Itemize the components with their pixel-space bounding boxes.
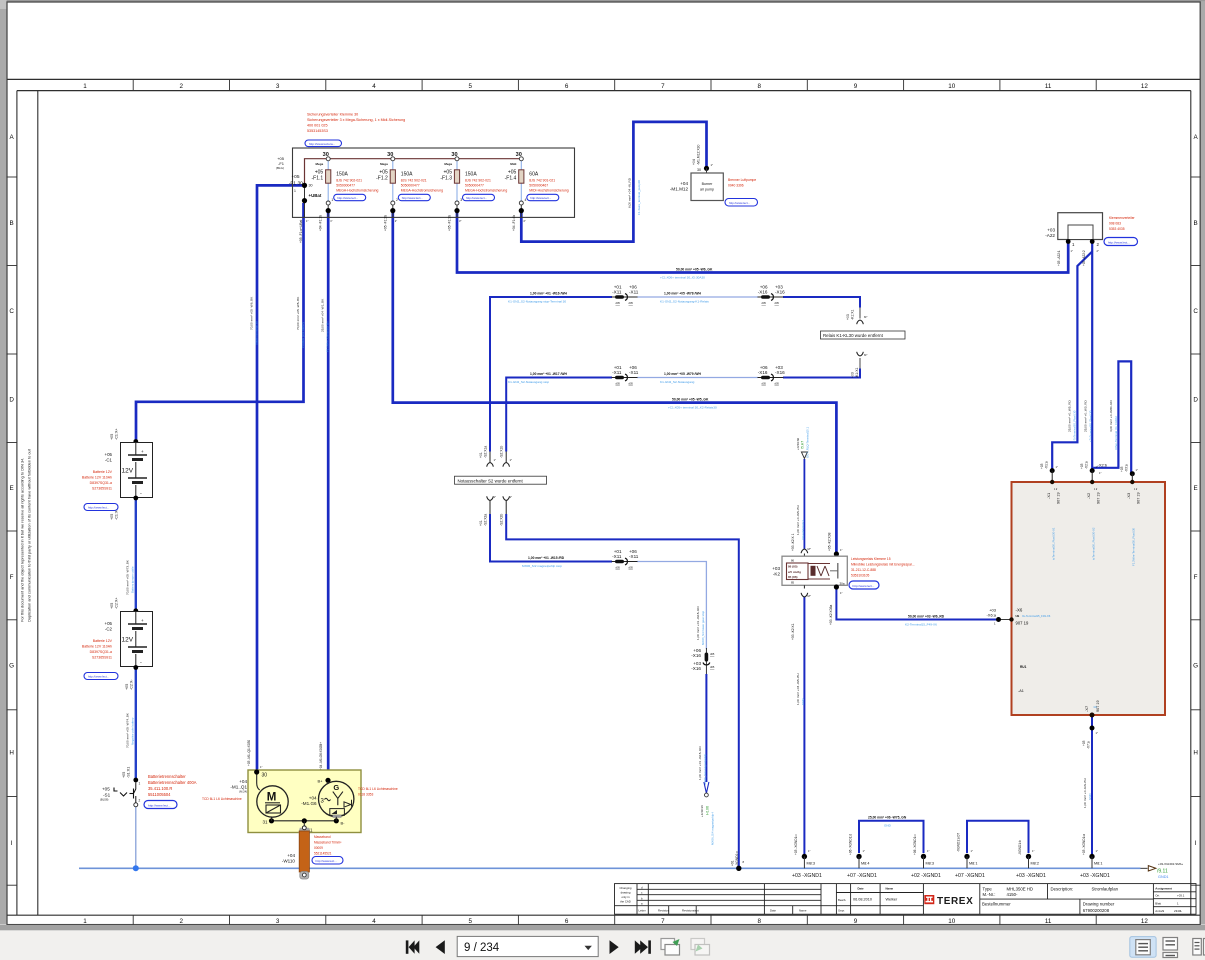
svg-text:8: 8: [757, 83, 761, 90]
svg-text:the CAD: the CAD: [620, 900, 631, 904]
svg-text:1,00 mm² +01 -W15..RD: 1,00 mm² +01 -W15..RD: [698, 746, 702, 780]
A22 pin 1: [1066, 239, 1075, 247]
toolbar next-page button: [610, 940, 619, 954]
connector pair X16 on row1: [758, 284, 786, 305]
battery disconnect switch S1: [100, 778, 141, 807]
svg-text:-K1:X1: -K1:X1: [851, 310, 855, 320]
contact fork at K2 coil bottom: [801, 585, 808, 597]
svg-text:-C1:X+: -C1:X+: [115, 428, 119, 440]
svg-text:http://www.lectura...: http://www.lectura...: [309, 142, 335, 146]
svg-text:H: H: [9, 750, 14, 757]
svg-text:d05: d05: [762, 382, 767, 386]
svg-text:1″: 1″: [494, 458, 497, 462]
hyperlink oval relay K2: [849, 581, 879, 589]
node +05 -C1:X+ label: [110, 428, 141, 445]
svg-text:-A1: -A1: [1018, 689, 1024, 693]
svg-text:907 19: 907 19: [1096, 700, 1100, 712]
battery C2 12V: [105, 612, 153, 667]
svg-text:+07 -XGND1: +07 -XGND1: [955, 873, 985, 879]
wire: fuse F1.1 output down to generator B+: [327, 212, 330, 780]
sheet reference arrow feeding relay K2 coil: [796, 426, 810, 458]
contact S2:X1b: [500, 446, 513, 467]
svg-text:-X6: -X6: [1016, 608, 1023, 613]
svg-text:http://www.lect...: http://www.lect...: [402, 196, 423, 200]
svg-text:-C1:X-: -C1:X-: [115, 509, 119, 520]
svg-text:G: G: [9, 663, 14, 670]
svg-text:F1.4wire_terminal_pump30: F1.4wire_terminal_pump30: [637, 180, 641, 215]
svg-text:+03.1: +03.1: [1177, 894, 1185, 898]
svg-text:D8397SQ31-a: D8397SQ31-a: [90, 650, 112, 654]
svg-text:+1/49:36: +1/49:36: [700, 805, 704, 817]
svg-text:+03 -XGND1: +03 -XGND1: [792, 873, 822, 879]
fuse box internal 30 rail: [305, 159, 522, 186]
svg-text:50,00 mm² +05 -W5..GK: 50,00 mm² +05 -W5..GK: [672, 397, 709, 401]
svg-text:+03 -XGND1: +03 -XGND1: [1016, 873, 1046, 879]
contact K1:X1 lower: [851, 352, 868, 378]
svg-text:2: 2: [180, 83, 184, 90]
svg-text:d05: d05: [629, 301, 634, 305]
svg-text:85: 85: [791, 581, 795, 585]
svg-text:toTerminal30_PlusU30-X2: toTerminal30_PlusU30-X2: [1092, 527, 1096, 560]
svg-text:25,00 mm² +0..W3..RD: 25,00 mm² +0..W3..RD: [1084, 400, 1088, 432]
svg-text:Description:: Description:: [1051, 886, 1074, 891]
svg-text:-C2:X+: -C2:X+: [115, 597, 119, 609]
hyperlink oval A22: [1104, 238, 1138, 246]
relay K2 box: [782, 556, 847, 585]
svg-text:-S1:X1: -S1:X1: [127, 767, 131, 778]
wire: A22 pin 2 branch with diagonal jog down to connector X1:a: [1052, 252, 1092, 470]
label +04 -M1..Q1: [230, 779, 247, 794]
svg-text:M″: M″: [808, 594, 811, 598]
svg-text:Blatt: Blatt: [1155, 902, 1161, 906]
svg-text:2″: 2″: [395, 219, 397, 223]
svg-text:3: 3: [460, 198, 462, 202]
svg-text:+04 -F1:4b: +04 -F1:4b: [512, 215, 516, 231]
svg-text:+03 -XGND1:c: +03 -XGND1:c: [794, 834, 798, 855]
column number ticks top: [133, 79, 1096, 90]
viewer right gray strip: [1201, 2, 1205, 925]
svg-text:+04: +04: [287, 853, 295, 858]
svg-text:5: 5: [469, 918, 473, 925]
rotated wire label on X7 ground wire: [1083, 778, 1092, 808]
wire: sheet-reference arrow down to relay K2 coil pin X1 (top): [803, 459, 805, 549]
svg-text:3″: 3″: [459, 219, 461, 223]
svg-text:-F1: -F1: [289, 180, 297, 186]
red part label W110: [314, 835, 341, 856]
svg-text:Positive pole battery: Positive pole battery: [301, 321, 305, 348]
toolbar last-page button: [635, 940, 651, 953]
svg-text:5: 5: [469, 83, 473, 90]
svg-text:5353103105: 5353103105: [851, 574, 870, 578]
svg-text:-M1..Q1: -M1..Q1: [230, 785, 247, 790]
viewer window chrome: top border line: [0, 0, 1205, 2]
svg-text:B: B: [1193, 220, 1197, 227]
svg-text:+05 -M1..Q1:X030: +05 -M1..Q1:X030: [247, 740, 251, 766]
svg-text:-X16: -X16: [758, 370, 768, 375]
svg-text:E: E: [9, 485, 13, 492]
wire: S2:X2b down, right along y539.4, down at x738 to ground bus XGND1:c: [506, 514, 739, 868]
svg-text:Batterie 12V: Batterie 12V: [93, 470, 113, 474]
svg-text:+ToTerminal30_PlusU30: +ToTerminal30_PlusU30: [1073, 410, 1077, 442]
rotated node label +03 -K2:X08a: [829, 591, 843, 625]
svg-text:IG-Terminal15_F49-X6: IG-Terminal15_F49-X6: [1022, 614, 1051, 618]
svg-text:25,00 mm² +0..W5..RD: 25,00 mm² +0..W5..RD: [1068, 400, 1072, 432]
svg-text:1″: 1″: [711, 163, 714, 167]
svg-text:C: C: [1193, 308, 1198, 315]
svg-text:S27365S911: S27365S911: [92, 656, 112, 660]
A22 pin 2: [1090, 239, 1100, 247]
svg-text:d05: d05: [775, 301, 780, 305]
svg-text:1″: 1″: [306, 219, 308, 223]
row letters right: [1193, 134, 1198, 847]
svg-text:Ort: Ort: [1155, 894, 1159, 898]
svg-text:1″: 1″: [510, 458, 513, 462]
svg-text:8JS 742 902-021: 8JS 742 902-021: [401, 179, 427, 183]
connector pair X11 on row1: [612, 284, 639, 305]
svg-text:C: C: [9, 308, 14, 315]
svg-text:(BLS8): (BLS8): [100, 798, 108, 802]
svg-text:+: +: [141, 618, 144, 623]
wire label row1 right: [660, 292, 709, 304]
toolbar snapshot-to-clipboard icon: [661, 939, 680, 956]
svg-text:M8:4: M8:4: [861, 862, 869, 866]
svg-text:F: F: [10, 574, 14, 581]
svg-text:Name: Name: [886, 887, 894, 891]
svg-text:-X11: -X11: [629, 370, 639, 375]
svg-text:-C1: -C1: [105, 458, 113, 463]
fuse box internal +UBat branch line and junctions: [302, 183, 322, 218]
svg-text:+05: +05: [110, 603, 114, 609]
red part label battery C1: [82, 470, 113, 491]
svg-text:1″: 1″: [260, 765, 262, 769]
column band bottom line (inner frame top): [17, 90, 1191, 92]
wire: relay K2 contact X08a down and right to control unit pin X6:a: [836, 587, 1011, 620]
svg-text:86: 86: [791, 559, 795, 563]
svg-text:-X16: -X16: [775, 370, 785, 375]
view mode: continuous: [1163, 938, 1178, 958]
svg-text:5511005504: 5511005504: [148, 792, 171, 797]
svg-text:Gepr.: Gepr.: [838, 909, 845, 913]
toolbar previous-page button: [436, 940, 445, 954]
rotated wire label on K2 coil feed: [796, 505, 805, 540]
contact S2:X1a (wire end fork): [479, 446, 496, 467]
svg-text:D8397SQ31-a: D8397SQ31-a: [90, 481, 112, 485]
ground stud M8:1 (+03 -XGND1): [1080, 834, 1110, 879]
A1 pin X2:a: [1080, 461, 1101, 560]
svg-text:+03: +03: [1047, 228, 1055, 233]
svg-text:+05: +05: [105, 621, 113, 626]
svg-text:d05: d05: [629, 566, 634, 570]
letters band vertical line left: [16, 91, 18, 916]
svg-text:MEGA-Hochstromsicherung: MEGA-Hochstromsicherung: [401, 189, 443, 193]
column number ticks bottom: [133, 915, 1096, 924]
svg-text:+04: +04: [239, 779, 247, 784]
svg-text:http://www.lect...: http://www.lect...: [466, 196, 487, 200]
svg-text:-X7:a: -X7:a: [1087, 741, 1091, 749]
svg-text:-X11: -X11: [629, 289, 639, 294]
svg-text:http://www.lect...: http://www.lect...: [1108, 240, 1130, 244]
svg-text:2: 2: [180, 918, 184, 925]
svg-text:Relais K1-KL30 wurde entfernt: Relais K1-KL30 wurde entfernt: [823, 333, 884, 338]
svg-text:1: 1: [83, 918, 87, 925]
svg-text:-X7: -X7: [1084, 705, 1089, 712]
label +04 -M1.G6: [301, 796, 317, 807]
svg-text:Mega: Mega: [380, 162, 388, 166]
pin B+ of generator M1.G6: [318, 778, 331, 784]
svg-text:907 19: 907 19: [1016, 621, 1029, 626]
svg-text:50,00 mm² +05 -W6..GK: 50,00 mm² +05 -W6..GK: [676, 268, 713, 272]
svg-text:M8:3: M8:3: [807, 862, 815, 866]
svg-text:M.-Nr.:: M.-Nr.:: [983, 892, 996, 897]
svg-text:GND1: GND1: [1158, 875, 1169, 879]
svg-text:1″: 1″: [840, 548, 843, 552]
svg-text:Brenner Luftpumpe: Brenner Luftpumpe: [728, 178, 756, 182]
svg-text:+04 -M1.G6:X0GB+: +04 -M1.G6:X0GB+: [319, 742, 323, 770]
svg-text:1▼: 1▼: [1134, 488, 1138, 491]
ground junction +01 -XGND1:c (dot on bus): [731, 851, 745, 871]
title block assignment mini-table: [1155, 887, 1184, 913]
svg-text:Anzahl: Anzahl: [1155, 909, 1164, 913]
plug arrow H106 (sheet reference going down): [700, 782, 715, 845]
svg-text:85 (86): 85 (86): [788, 575, 798, 579]
inner drawing frame left: [37, 91, 39, 916]
A1 pin X3:a: [1120, 464, 1141, 566]
wire: battery starter feed +Ubat from fuse box left down to motor M pin 30: [257, 185, 305, 771]
svg-text:8: 8: [757, 918, 761, 925]
svg-text:+05: +05: [125, 684, 129, 690]
svg-text:+05: +05: [110, 514, 114, 520]
bottom band top line (inner frame bottom): [7, 914, 1200, 916]
red part label A22: [1109, 216, 1136, 231]
rotated node label +04 -M1.G6:X0GB+: [319, 742, 333, 773]
svg-text:For this document and the obje: For this document and the object represe…: [20, 458, 25, 622]
wire: battery C1 minus to battery C2 plus: [135, 498, 137, 611]
svg-text:1″: 1″: [1071, 249, 1073, 253]
svg-text:Mega: Mega: [444, 162, 452, 166]
svg-text:Masseband: Masseband: [314, 835, 331, 839]
svg-text:G: G: [333, 783, 339, 792]
wire label X2a row: [522, 556, 565, 568]
red label TCD Lichtmaschine left: [202, 797, 242, 801]
svg-text:12: 12: [1141, 83, 1149, 90]
svg-text:3: 3: [276, 83, 280, 90]
svg-text:Mikrobike Leistungsrelais mit: Mikrobike Leistungsrelais mit Energiespa…: [851, 563, 915, 567]
fuse F1.2 150A: [376, 152, 443, 231]
svg-text:-X3: -X3: [1126, 492, 1131, 499]
svg-text:K1-GN2_S2-Notausgang stop-Term: K1-GN2_S2-Notausgang stop-Terminal 30: [508, 300, 566, 304]
svg-text:+03 -K2:X08a: +03 -K2:X08a: [829, 605, 833, 625]
svg-text:E: E: [1193, 485, 1197, 492]
svg-text:4″: 4″: [523, 219, 525, 223]
svg-text:4: 4: [372, 918, 376, 925]
red part label burner pump: [728, 178, 756, 188]
svg-text:MEGA-Hochstromsicherung: MEGA-Hochstromsicherung: [336, 189, 378, 193]
svg-text:http://www.lect...: http://www.lect...: [337, 196, 358, 200]
svg-text:70,00 mm² +05 -W74..BK: 70,00 mm² +05 -W74..BK: [126, 712, 130, 748]
wire: fuse F1.3 output down, right along y272.5 to terminal block A22 pin 1: [457, 212, 1068, 273]
svg-text:4,00 mm² +0..W80..RD: 4,00 mm² +0..W80..RD: [1109, 400, 1113, 432]
svg-text:+ToTerminal30_PlusU30: +ToTerminal30_PlusU30: [1089, 410, 1093, 442]
rotated node label +03 -K2:X1 (bottom): [791, 594, 811, 640]
view mode: two pages: [1193, 939, 1205, 956]
svg-text:11: 11: [1045, 83, 1052, 90]
contact K1:X1 upper: [846, 310, 867, 325]
node +05 -C1:X- label: [110, 496, 138, 520]
svg-text:MX06_S/2 magnetpohlp: MX06_S/2 magnetpohlp: [703, 754, 707, 785]
svg-text:-X16: -X16: [691, 666, 701, 671]
svg-text:M: M: [267, 792, 277, 804]
svg-text:907 19: 907 19: [1057, 492, 1061, 504]
svg-text:+: +: [141, 449, 144, 454]
svg-text:M8:1: M8:1: [969, 862, 977, 866]
svg-text:B+: B+: [318, 778, 324, 783]
svg-text:/5.H7: /5.H7: [801, 441, 805, 449]
svg-text:1,00 mm² +03 -W5..BU: 1,00 mm² +03 -W5..BU: [796, 673, 800, 705]
svg-text:Batterie 12V 110Ah: Batterie 12V 110Ah: [82, 476, 112, 480]
svg-text:-C2:X-: -C2:X-: [130, 679, 134, 690]
svg-text:1″: 1″: [510, 495, 513, 499]
svg-text:+05 -K2:X08: +05 -K2:X08: [828, 532, 832, 551]
svg-text:MX06_S/3 lower gear stop: MX06_S/3 lower gear stop: [701, 611, 705, 645]
svg-text:1,00 mm² +0..W5..BU: 1,00 mm² +0..W5..BU: [796, 505, 800, 535]
rotated label battery to switch cable: [126, 712, 135, 748]
label +03 -A22: [1045, 228, 1055, 239]
node label -X2:b on bracket wire: [1098, 463, 1108, 476]
svg-text:31: 31: [263, 820, 269, 825]
svg-text:907 19: 907 19: [1137, 492, 1141, 504]
svg-text:2″: 2″: [1097, 249, 1099, 253]
svg-text:5050000477: 5050000477: [336, 183, 355, 187]
svg-text:-F1.3: -F1.3: [440, 176, 452, 182]
svg-text:d05: d05: [710, 652, 715, 656]
svg-text:3: 3: [276, 918, 280, 925]
svg-text:-X1:a: -X1:a: [1045, 461, 1049, 469]
svg-text:Negative pole battery: Negative pole battery: [131, 717, 135, 745]
svg-text:06.08.2010: 06.08.2010: [853, 898, 872, 902]
svg-text:K2-Terminal15_F49-X6: K2-Terminal15_F49-X6: [905, 623, 937, 627]
svg-text:86 (85): 86 (85): [788, 565, 798, 569]
svg-text:+05: +05: [105, 452, 113, 457]
svg-text:d05: d05: [616, 566, 621, 570]
svg-text:Batterie 12V: Batterie 12V: [93, 639, 113, 643]
rotated node label +04 -M1.M12:X30: [692, 145, 701, 165]
svg-text:Name: Name: [799, 909, 807, 913]
svg-text:-M1.M12:X30: -M1.M12:X30: [697, 145, 701, 165]
svg-text:8JS 742 902-021: 8JS 742 902-021: [465, 179, 491, 183]
svg-text:1,00 mm² +05 -W79 /WH: 1,00 mm² +05 -W79 /WH: [664, 372, 702, 376]
svg-text:TCD 6L1 L6 Lichtmaschine: TCD 6L1 L6 Lichtmaschine: [202, 797, 242, 801]
svg-text:+03: +03: [1040, 463, 1044, 469]
svg-text:-X16: -X16: [691, 653, 701, 658]
svg-text:Klemmenverteiler: Klemmenverteiler: [1109, 216, 1136, 220]
svg-text:8JS 742 902-021: 8JS 742 902-021: [336, 179, 362, 183]
svg-text:Batterietrennschalter: Batterietrennschalter: [148, 774, 186, 779]
svg-text:+04 -F1:1b: +04 -F1:1b: [319, 215, 323, 231]
fuse box left terminal labels +05 -F1 30: [276, 156, 303, 193]
rotated wire label 25mm generator cable on x328 wire: [321, 298, 330, 352]
svg-text:30: 30: [309, 184, 313, 188]
svg-text:+01: +01: [479, 452, 483, 458]
svg-text:Drawing number: Drawing number: [1083, 902, 1115, 907]
svg-text:-S1: -S1: [103, 793, 111, 798]
svg-text:-X2: -X2: [1086, 492, 1091, 499]
svg-text:GND: GND: [801, 699, 805, 705]
svg-text:d05: d05: [775, 382, 780, 386]
svg-text:-: -: [140, 491, 142, 497]
svg-text:-S2:X2a: -S2:X2a: [484, 514, 488, 526]
svg-text:6: 6: [565, 83, 569, 90]
svg-text:M8:2: M8:2: [1031, 862, 1039, 866]
A1 internal labels: [1018, 665, 1027, 693]
rotated wire label on x706 wire lower: [698, 746, 707, 785]
fuse F1.4 60A: [505, 152, 569, 231]
svg-text:d05: d05: [762, 301, 767, 305]
svg-text:1: 1: [139, 782, 141, 786]
toolbar page number combobox 9 / 234: [457, 936, 598, 956]
svg-text:908 083: 908 083: [1109, 222, 1121, 226]
svg-text:-XGND1:c: -XGND1:c: [735, 851, 739, 866]
svg-text:Welker: Welker: [886, 898, 898, 902]
internal ground link 31 / B-: [263, 817, 346, 833]
svg-text:00009: 00009: [314, 846, 323, 850]
svg-text:12V: 12V: [122, 468, 134, 475]
wire: ground bracket M8:1(+07) to M8:2: [967, 821, 1029, 853]
svg-text:-S2:X1b: -S2:X1b: [500, 446, 504, 458]
svg-text:-M1.M12: -M1.M12: [670, 187, 689, 192]
svg-text:1″: 1″: [971, 849, 973, 853]
svg-text:1▼: 1▼: [1054, 488, 1058, 491]
svg-text:+03 -K2:X1: +03 -K2:X1: [791, 623, 795, 640]
svg-text:M″: M″: [864, 315, 867, 319]
svg-text:60A: 60A: [529, 172, 539, 178]
svg-text:+05: +05: [291, 174, 299, 180]
svg-text:1: 1: [294, 189, 296, 193]
svg-text:Date: Date: [858, 887, 865, 891]
svg-text:Bearb.: Bearb.: [838, 898, 846, 902]
title block type/description: [982, 886, 1119, 913]
svg-text:5050000477: 5050000477: [401, 183, 420, 187]
svg-text:M″: M″: [864, 353, 867, 357]
svg-text:10: 10: [948, 83, 956, 90]
svg-text:1▼: 1▼: [1094, 488, 1098, 491]
svg-text:+05: +05: [122, 772, 126, 778]
svg-text:RU1: RU1: [1020, 665, 1027, 669]
wire row2: S2:X1b up to y377.5 and right to removed relay K1:X1 (lower): [506, 358, 860, 452]
svg-text:Type: Type: [983, 886, 993, 891]
A1 pin X7 (bottom): [1082, 700, 1100, 749]
wire: fuse F1.4 output down, right, up, right to burner air pump M1.M12: [521, 122, 706, 242]
svg-text:Starter terminal 30: Starter terminal 30: [255, 321, 259, 345]
wire label 50mm row to A22 (y272): [660, 268, 713, 280]
rotated node label +05 -M1.Q1:X030: [247, 740, 262, 769]
svg-text:MHL350E HD: MHL350E HD: [1007, 886, 1034, 891]
svg-text:+03: +03: [1120, 466, 1124, 472]
svg-text:7: 7: [661, 83, 665, 90]
svg-text:M″: M″: [808, 547, 811, 551]
rotated wire label on K2 ground wire: [796, 673, 805, 705]
svg-text:+01: +01: [731, 860, 735, 866]
svg-text:http://www.lect...: http://www.lect...: [88, 506, 109, 510]
svg-text:-X1: -X1: [1046, 492, 1051, 499]
svg-text:30a: 30a: [840, 581, 845, 585]
svg-text:1: 1: [331, 198, 333, 202]
svg-text:35.411.100.R: 35.411.100.R: [148, 786, 172, 791]
svg-text:0040 3396: 0040 3396: [728, 184, 744, 188]
wire row1: S2:X1a up to y297 and right to removed relay K1:X1 (upper): [490, 297, 860, 452]
svg-text:-X11: -X11: [612, 289, 622, 294]
label +03 -K2: [772, 566, 780, 577]
svg-text:-S2:X1a: -S2:X1a: [484, 446, 488, 458]
